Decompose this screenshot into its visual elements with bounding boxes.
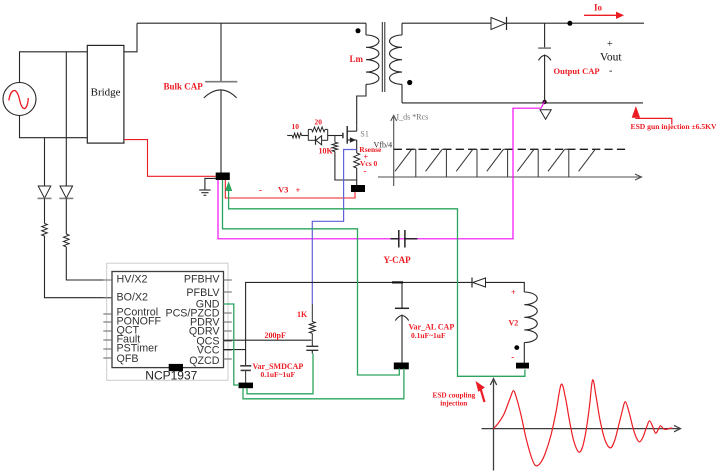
svg-text:+: + bbox=[511, 288, 516, 297]
svg-text:0.1uF~1uF: 0.1uF~1uF bbox=[411, 331, 446, 340]
svg-text:PFBHV: PFBHV bbox=[184, 274, 221, 286]
diode D_hv bbox=[59, 186, 73, 198]
waveform current ramps bbox=[395, 149, 599, 177]
wire rsense to pad bbox=[356, 168, 358, 185]
svg-text:-: - bbox=[364, 166, 367, 176]
svg-text:+: + bbox=[296, 185, 301, 195]
axis ring x bbox=[482, 425, 681, 431]
svg-text:I_ds *Rcs: I_ds *Rcs bbox=[397, 113, 429, 122]
wire to ground symbol bbox=[205, 178, 216, 190]
junction tick alcap bbox=[392, 281, 403, 283]
svg-text:Lm: Lm bbox=[350, 54, 364, 64]
svg-text:NCP1937: NCP1937 bbox=[145, 369, 197, 383]
wire drain bbox=[356, 126, 358, 131]
node al cap pad bbox=[394, 363, 409, 370]
ic outer gray box bbox=[107, 263, 228, 380]
op-amp U1 NCP1937 box bbox=[112, 272, 224, 368]
wire gate stub bbox=[287, 135, 292, 137]
svg-text:injection: injection bbox=[440, 399, 467, 408]
node rsense pad bbox=[351, 185, 365, 192]
wire V3 red bbox=[225, 180, 355, 198]
resistor 10K bbox=[332, 136, 338, 152]
diode rail bbox=[472, 278, 486, 288]
svg-text:+: + bbox=[607, 39, 613, 50]
transformer core bbox=[382, 22, 385, 92]
svg-text:-: - bbox=[609, 66, 612, 77]
svg-text:Output CAP: Output CAP bbox=[554, 66, 600, 76]
svg-text:BO/X2: BO/X2 bbox=[117, 291, 149, 303]
wire d_bo to r bbox=[44, 198, 46, 223]
wire secondary bottom rail bbox=[402, 102, 643, 104]
node smd cap pad bbox=[239, 383, 254, 389]
capacitor output CAP bbox=[538, 23, 551, 103]
wire output top rail bbox=[506, 22, 645, 24]
ac source bbox=[3, 83, 36, 116]
svg-text:QFB: QFB bbox=[117, 353, 139, 365]
axis ring y bbox=[490, 379, 496, 471]
svg-text:S1: S1 bbox=[360, 130, 368, 139]
node ic bottom pad bbox=[169, 364, 183, 371]
diode output rectifier bbox=[491, 17, 507, 30]
arrow ESD coupling bbox=[476, 381, 485, 402]
svg-text:Bridge: Bridge bbox=[91, 87, 121, 99]
wire green gnd to alcap bbox=[223, 180, 400, 375]
wire QCS 200pF bbox=[224, 339, 312, 341]
transformer secondary bbox=[390, 23, 402, 103]
diode D_bo bbox=[38, 186, 52, 198]
pin labels left bbox=[117, 274, 162, 365]
dashed line Vfb/4 bbox=[394, 148, 627, 150]
svg-text:ESD gun injection ±6.5KV: ESD gun injection ±6.5KV bbox=[631, 122, 718, 131]
pin labels right bbox=[165, 274, 220, 367]
wire ac top bbox=[20, 52, 88, 83]
svg-text:Y-CAP: Y-CAP bbox=[384, 255, 412, 265]
pin stubs left bbox=[103, 280, 112, 358]
waveform ESD ringing bbox=[494, 380, 673, 466]
node secondary gnd dot bbox=[542, 100, 546, 104]
wire bo sense tap bbox=[44, 138, 46, 186]
wire primary top rail bbox=[137, 22, 366, 24]
svg-text:QZCD: QZCD bbox=[189, 355, 220, 367]
svg-text:0.1uF~1uF: 0.1uF~1uF bbox=[261, 370, 296, 379]
wire green smd to 200pF bbox=[247, 354, 313, 394]
resistor Rsense bbox=[354, 153, 360, 168]
ground secondary triangle bbox=[540, 110, 551, 120]
capacitor 200pF bbox=[306, 346, 318, 353]
svg-text:20: 20 bbox=[315, 118, 323, 127]
wire rail to V2 bbox=[486, 282, 525, 292]
inductor V2 bbox=[524, 292, 537, 364]
bridge rectifier bbox=[87, 45, 124, 143]
dot V2 polarity bbox=[514, 345, 519, 350]
resistor 1K bbox=[309, 304, 315, 346]
wire d_hv to r bbox=[65, 198, 67, 234]
axis ramp x bbox=[378, 174, 642, 180]
transformer primary Lm bbox=[357, 23, 379, 126]
svg-text:Vfb/4: Vfb/4 bbox=[374, 141, 393, 150]
resistor R_hv bbox=[64, 234, 70, 247]
svg-text:V3: V3 bbox=[278, 185, 288, 195]
wire VCC bbox=[224, 349, 246, 351]
wire green GND pin bbox=[224, 304, 240, 385]
svg-text:HV/X2: HV/X2 bbox=[117, 274, 148, 286]
wire to BO/X2 pin bbox=[45, 236, 113, 298]
node primary GND pad bbox=[216, 173, 230, 181]
wire 10K bottom to source bbox=[335, 152, 357, 180]
svg-text:-: - bbox=[259, 185, 262, 195]
svg-text:V2: V2 bbox=[509, 319, 519, 328]
svg-text:-: - bbox=[511, 352, 514, 362]
transistor Q S1 bbox=[343, 126, 357, 144]
capacitor Var_AL CAP bbox=[395, 282, 409, 362]
arrow Io bbox=[584, 12, 624, 19]
svg-text:Bulk CAP: Bulk CAP bbox=[164, 82, 204, 92]
parallel box 20 + diode bbox=[308, 127, 327, 145]
svg-text:PFBLV: PFBLV bbox=[186, 287, 220, 299]
pin stubs right bbox=[224, 280, 232, 359]
capacitor Var_SMDCAP bbox=[240, 366, 251, 383]
wire magenta primary-secondary bbox=[218, 102, 545, 239]
axis ramp y bbox=[391, 115, 397, 186]
node V2 pad bbox=[516, 363, 529, 369]
wire green smd to alcap bbox=[243, 369, 404, 399]
capacitor bulk CAP bbox=[204, 23, 238, 172]
svg-text:10K: 10K bbox=[319, 147, 334, 156]
wire r10 to box bbox=[302, 135, 309, 137]
arrow green at primary gnd bbox=[225, 181, 525, 376]
dot secondary polarity bbox=[407, 80, 412, 85]
wire bridge top out bbox=[124, 23, 137, 52]
svg-text:Io: Io bbox=[594, 3, 603, 13]
wire red bridge bottom out bbox=[124, 140, 216, 177]
wire hv sense tap bbox=[65, 52, 67, 186]
node output top dot bbox=[567, 21, 572, 26]
dot primary polarity bbox=[356, 28, 361, 33]
wire source to rsense bbox=[356, 140, 358, 153]
wire box to gate bbox=[328, 135, 343, 137]
svg-text:10: 10 bbox=[292, 122, 300, 131]
svg-text:1K: 1K bbox=[297, 310, 308, 319]
wire vcc rail bbox=[246, 282, 472, 365]
wire blue cs sense bbox=[312, 150, 356, 304]
resistor 10 bbox=[292, 133, 301, 138]
resistor R_bo bbox=[42, 224, 48, 237]
svg-text:Vout: Vout bbox=[600, 52, 622, 64]
wire to HV/X2 pin bbox=[66, 247, 112, 280]
svg-text:200pF: 200pF bbox=[265, 331, 286, 340]
wire secondary top rail bbox=[402, 22, 491, 24]
capacitor Y-CAP bbox=[391, 230, 418, 248]
ground primary bbox=[199, 190, 210, 195]
arrow ESD gun bbox=[632, 106, 672, 125]
wire ac bottom bbox=[20, 116, 88, 138]
